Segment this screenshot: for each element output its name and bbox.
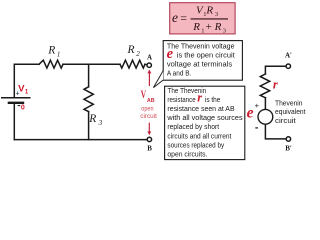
svg-text:R: R [205, 5, 213, 17]
svg-text:+: + [206, 21, 212, 33]
svg-text:R: R [192, 21, 200, 33]
svg-text:open circuits.: open circuits. [167, 152, 207, 159]
callout box 2 [165, 86, 245, 159]
resistor R1 [39, 60, 63, 68]
svg-text:B: B [147, 144, 152, 152]
label Thevenin equivalent circuit [275, 100, 306, 125]
callout box 1 [163, 41, 242, 81]
wire A' to corner [265, 66, 285, 74]
svg-text:is the: is the [205, 97, 221, 104]
svg-text:replaced by short: replaced by short [167, 124, 219, 131]
wire r to source [264, 98, 266, 110]
terminal A' [286, 64, 290, 68]
svg-text:with all voltage sources: with all voltage sources [166, 115, 243, 122]
svg-text:R: R [214, 21, 222, 33]
wire R2 to terminal A [145, 63, 147, 65]
source circle e [258, 109, 273, 124]
svg-text:r: r [273, 78, 278, 92]
label e (red) [247, 105, 254, 122]
wire middle branch top [88, 64, 90, 87]
svg-text:A and B.: A and B. [167, 71, 192, 78]
svg-text:1: 1 [25, 89, 29, 95]
battery V1 long plate [1, 97, 31, 99]
svg-text:voltage at terminals: voltage at terminals [167, 62, 233, 69]
svg-text:1: 1 [57, 50, 61, 58]
svg-text:Thevenin: Thevenin [275, 100, 303, 107]
svg-text:equivalent: equivalent [275, 109, 306, 116]
label 0 (red) [21, 105, 25, 112]
wire top-left: battery top to R1 [14, 64, 39, 97]
svg-text:r: r [197, 91, 202, 105]
label R3 [88, 113, 102, 127]
label B' [285, 144, 292, 152]
svg-text:V: V [18, 84, 24, 94]
svg-text:3: 3 [223, 27, 226, 34]
svg-text:A′: A′ [285, 52, 292, 60]
source minus [255, 127, 258, 129]
svg-text:resistance: resistance [167, 97, 195, 104]
wire middle branch bottom [88, 112, 90, 140]
formula box [170, 3, 235, 34]
svg-text:B′: B′ [285, 144, 292, 152]
svg-text:+: + [255, 101, 260, 110]
label open circuit (red) [140, 106, 157, 120]
label R1 [47, 45, 60, 59]
red arrow down (toward B) [147, 123, 151, 136]
source plus [255, 101, 260, 110]
svg-text:e: e [167, 46, 174, 62]
battery V1 short plate [8, 102, 25, 104]
callout box 1 text [167, 44, 235, 78]
red arrow up (toward A) [147, 70, 151, 87]
wire source to B' [265, 124, 285, 139]
terminal B' [286, 137, 290, 141]
svg-text:R: R [88, 113, 96, 125]
svg-text:e: e [247, 105, 254, 122]
wire battery bottom segment [13, 103, 15, 140]
svg-text:3: 3 [215, 11, 218, 18]
svg-text:e: e [172, 10, 178, 25]
svg-text:The Thevenin voltage: The Thevenin voltage [167, 44, 235, 51]
svg-text:0: 0 [21, 105, 25, 112]
wire R1 to node to R2 [63, 63, 120, 65]
svg-text:is the open circuit: is the open circuit [177, 53, 235, 60]
callout box 2 text [166, 88, 243, 159]
callout box 1 tail [153, 71, 163, 88]
battery minus sign [18, 105, 21, 107]
svg-text:A: A [147, 53, 152, 61]
label A [147, 53, 152, 61]
label A' [285, 52, 292, 60]
formula e = V1R3/(R1+R3) [172, 5, 228, 35]
resistor r (Thevenin) [260, 74, 269, 98]
svg-text:circuits and all current: circuits and all current [167, 133, 231, 140]
svg-text:circuit: circuit [140, 113, 157, 120]
resistor R3 [84, 87, 93, 112]
svg-text:open: open [141, 106, 154, 113]
wire bottom [14, 139, 147, 141]
svg-text:R: R [47, 45, 55, 57]
svg-text:sources replaced by: sources replaced by [167, 142, 224, 149]
label V1 (red) [18, 84, 29, 96]
svg-text:V: V [141, 89, 147, 101]
svg-text:=: = [180, 11, 187, 25]
label r (red) [273, 78, 278, 92]
label VAB (red) [141, 89, 155, 104]
right circuit wires [260, 66, 286, 139]
label B [147, 144, 152, 152]
svg-text:resistance seen at AB: resistance seen at AB [167, 106, 235, 113]
svg-text:2: 2 [136, 50, 140, 58]
svg-text:3: 3 [98, 119, 103, 127]
label R2 [127, 44, 141, 58]
resistor R2 [120, 60, 145, 68]
svg-text:AB: AB [147, 98, 155, 104]
terminal A [147, 63, 151, 67]
battery plus sign [16, 91, 20, 98]
terminal B [147, 137, 151, 141]
svg-text:R: R [127, 44, 135, 56]
svg-text:circuit: circuit [275, 118, 296, 125]
svg-text:1: 1 [201, 27, 204, 34]
